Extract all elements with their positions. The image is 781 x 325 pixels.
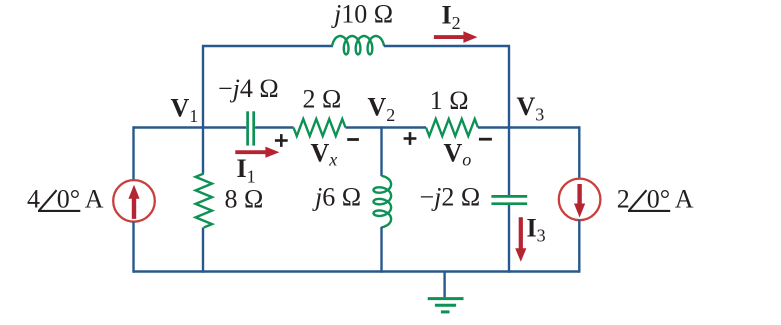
polarity + for Vx [275,134,288,147]
wire: middle bus V1 left end to capacitor C1 [133,126,246,128]
wire: top loop left riser and top-left segment [203,46,333,129]
inductor j10 ohm (top branch) [332,36,384,54]
wire: 8 ohm branch upper lead [202,126,204,173]
label 2 angle 0 A [617,185,694,214]
wire: top loop right segment and right riser [384,46,509,129]
polarity - for Vx [347,138,359,141]
svg-text:j10 Ω: j10 Ω [331,0,393,29]
current source S2 arrow (down) [574,184,585,218]
svg-text:−j4 Ω: −j4 Ω [218,74,279,103]
current arrow I1 [235,147,279,158]
capacitor -j4 ohm (series, vertical plates) [248,111,254,145]
wire: j6 branch upper lead (node V2 down) [380,126,382,176]
svg-text:1 Ω: 1 Ω [430,86,469,115]
ground stem [443,272,445,298]
svg-text:j6 Ω: j6 Ω [312,183,361,212]
resistor 1 ohm (series) [426,119,478,136]
svg-text:4: 4 [27,185,40,214]
capacitor -j2 ohm (shunt, horizontal plates) [491,196,527,203]
svg-text:0°: 0° [57,185,80,214]
current arrow I2 [434,31,478,43]
svg-text:A: A [675,185,694,214]
resistor 8 ohm (shunt at V1) [196,174,212,228]
wire: -j2 branch lower lead [508,205,510,273]
svg-text:2 Ω: 2 Ω [303,84,342,113]
wire: j6 branch lower lead [380,227,382,273]
ground symbol (earth bars) [428,299,464,312]
polarity - for Vo [479,138,492,141]
current source 4/_0 A (circle) [113,180,155,222]
wire: capacitor C1 to resistor 2 ohm [255,126,293,128]
svg-text:2: 2 [617,185,630,214]
wire: right branch lower (source S2 to bottom bus) [578,220,580,273]
resistor 2 ohm (series) [294,119,346,136]
wire: 8 ohm branch lower lead [202,228,204,273]
svg-text:0°: 0° [647,185,670,214]
wire: right branch upper (V3 bus to source S2) [578,126,580,178]
wire: node V2 segment (2 ohm to 1 ohm) [346,126,427,128]
svg-text:−j2 Ω: −j2 Ω [420,183,481,212]
wire: left branch lower (source S1 to bottom bus) [132,222,134,273]
current source S1 arrow (up) [128,185,139,219]
wire: left branch upper (V1 bus to source S1) [132,126,134,180]
polarity + for Vo [404,132,417,145]
current source 2/_0 A (circle) [559,179,601,221]
current arrow I3 [515,217,526,261]
wire: bottom bus [133,270,579,272]
svg-text:A: A [85,185,104,214]
svg-text:8 Ω: 8 Ω [225,185,264,214]
inductor j6 ohm (shunt at V2) [374,176,392,227]
wire: -j2 branch upper lead (node V3 down) [508,126,510,195]
wire: 1 ohm to node V3 right end [478,126,580,128]
label 4 angle 0 A [27,185,104,214]
